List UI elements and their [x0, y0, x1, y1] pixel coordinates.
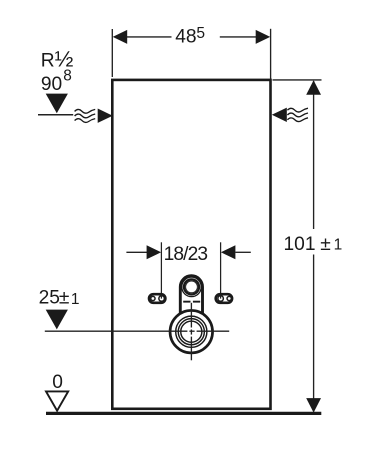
svg-text:0: 0	[52, 372, 63, 393]
dim 18/23 extension line left	[160, 242, 162, 298]
svg-text:48: 48	[175, 27, 196, 48]
dim 25±1 level triangle (filled)	[46, 310, 68, 330]
dim 101 dimension line lower segment	[313, 255, 315, 412]
water supply waves left	[75, 109, 96, 122]
water supply arrow left (into panel)	[98, 109, 113, 123]
dim 101 top extension line	[273, 79, 322, 81]
svg-text:±: ±	[320, 234, 331, 255]
fixing plate right	[216, 294, 232, 303]
dim 18/23 arrow left (pointing right)	[147, 245, 162, 259]
waste pipe socket outer	[170, 310, 213, 353]
dim 48.5 extension line right	[270, 29, 272, 79]
dim 18/23 tail line right	[235, 251, 250, 253]
horizontal centerline	[45, 330, 229, 332]
dim 18/23 extension line left end (inside hole)	[160, 295, 162, 299]
dim 48.5 label	[175, 25, 205, 48]
dim 18/23 extension line right	[220, 242, 222, 298]
dim 101 label	[284, 234, 343, 255]
dim 18/23 tail line left	[126, 251, 147, 253]
dim 18/23 extension line right end (inside hole)	[220, 295, 222, 299]
dim 101 arrow up	[306, 80, 321, 95]
dim 101 arrow down	[306, 398, 321, 413]
dim 48.5 dimension line right segment	[220, 36, 256, 38]
water supply waves right	[287, 108, 308, 121]
svg-text:8: 8	[63, 67, 72, 84]
label 90.8	[41, 67, 72, 95]
fixing plate left	[149, 294, 165, 303]
flush bend bracket (capsule)	[180, 276, 202, 326]
dim 48.5 dimension line left segment	[127, 36, 172, 38]
water supply level line	[38, 114, 73, 116]
dim 48.5 arrow left	[113, 30, 128, 44]
waste pipe socket rings	[176, 316, 207, 347]
svg-text:101: 101	[284, 234, 316, 255]
dim 48.5 extension line left	[111, 29, 113, 77]
bracket slot dashes	[183, 301, 190, 303]
svg-text:1: 1	[334, 237, 343, 254]
svg-text:18/23: 18/23	[164, 244, 208, 265]
dim 48.5 arrow right	[256, 30, 271, 44]
dim 25±1 label	[39, 288, 80, 309]
flush bend ring	[182, 277, 202, 297]
svg-text:±: ±	[59, 288, 70, 309]
svg-text:25: 25	[39, 288, 60, 309]
vertical centerline	[190, 303, 192, 361]
dim 101 dimension line upper segment	[313, 81, 315, 229]
dim 18/23 arrow right (pointing left)	[221, 245, 236, 259]
panel outline	[112, 80, 270, 409]
datum 0 triangle (open)	[46, 391, 68, 410]
water supply arrow right (into panel)	[272, 108, 287, 122]
svg-text:90: 90	[41, 74, 62, 95]
floor line	[46, 412, 321, 415]
svg-text:1: 1	[71, 291, 80, 308]
water supply level triangle (filled)	[46, 94, 68, 114]
svg-text:5: 5	[196, 25, 205, 42]
